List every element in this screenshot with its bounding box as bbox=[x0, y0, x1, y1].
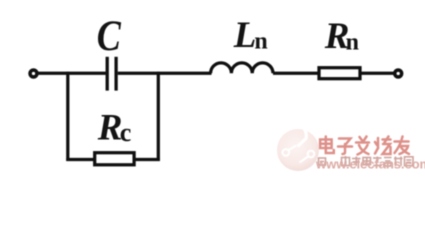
capacitor C left plate bbox=[106, 57, 109, 91]
svg-text:c: c bbox=[120, 118, 132, 147]
svg-text:R: R bbox=[97, 108, 123, 149]
svg-text:L: L bbox=[233, 15, 257, 56]
char you bbox=[395, 137, 410, 155]
wire: left terminal to capacitor bbox=[37, 72, 106, 75]
char zi bbox=[338, 139, 352, 155]
resistor Rc body bbox=[95, 153, 134, 165]
wire: left branch vertical bbox=[66, 72, 69, 161]
right terminal bbox=[395, 70, 402, 77]
watermark logo elecfans bbox=[277, 127, 319, 171]
wire: right branch vertical bbox=[157, 72, 160, 161]
svg-text:n: n bbox=[254, 29, 267, 55]
watermark text dianzifashaoyou (pseudo glyphs) bbox=[320, 137, 409, 155]
resistor Rn body bbox=[319, 68, 360, 79]
svg-text:n: n bbox=[346, 30, 359, 56]
char fa bbox=[356, 137, 369, 155]
wire: bottom right segment bbox=[134, 158, 160, 161]
capacitor C right plate bbox=[114, 57, 117, 91]
wire: inductor to resistor Rn bbox=[273, 72, 320, 75]
watermark small line jumble (pseudo glyphs) bbox=[319, 156, 414, 166]
char dian bbox=[320, 137, 334, 154]
char shao bbox=[375, 137, 391, 155]
inductor Ln coils bbox=[211, 63, 273, 73]
svg-text:C: C bbox=[97, 11, 122, 60]
svg-text:www.elecfans.com: www.elecfans.com bbox=[315, 156, 425, 171]
wire: capacitor to inductor bbox=[118, 72, 212, 75]
wire: resistor Rn to right terminal bbox=[360, 72, 395, 75]
wire: bottom left segment bbox=[66, 158, 95, 161]
left terminal bbox=[30, 70, 37, 77]
